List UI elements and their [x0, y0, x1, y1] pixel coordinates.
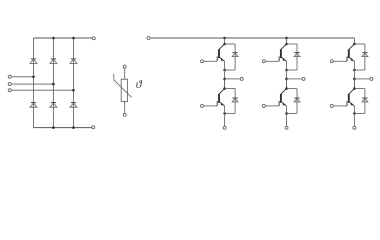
wire emitter leg 2 lower [286, 106, 288, 126]
terminal emitter leg 2 [285, 126, 288, 129]
wire rectifier leg 3 [73, 38, 75, 128]
wire diode branch bottom leg 3 upper [354, 69, 365, 71]
wire emitter leg 2 upper [286, 62, 288, 89]
wire AC input L2 [12, 83, 54, 85]
wire aux emitter leg 3 [354, 78, 369, 80]
wire collector drop leg 3 upper [353, 38, 355, 44]
wire thermistor bottom lead [124, 101, 126, 113]
node collector split leg 3 lower [353, 87, 356, 90]
wire gate lead leg 1 upper [204, 60, 217, 62]
node DC+ rail / leg 2 [285, 37, 288, 40]
wire diode branch bottom leg 3 lower [354, 112, 365, 114]
thermistor diagonal stroke [114, 74, 132, 98]
node emitter / diode leg 1 upper [223, 69, 226, 72]
wire rectifier leg 1 [33, 38, 35, 128]
wire diode branch top leg 1 lower [225, 88, 236, 90]
terminal aux emitter / phase leg 2 [302, 77, 305, 80]
node emitter / diode leg 3 upper [353, 69, 356, 72]
node emitter / diode leg 1 lower [223, 112, 226, 115]
wire gate lead leg 3 lower [334, 105, 347, 107]
wire rectifier leg 2 [52, 38, 54, 128]
terminal gate leg 1 upper [201, 60, 204, 63]
terminal emitter leg 1 [223, 126, 226, 129]
terminal gate leg 1 lower [201, 104, 204, 107]
diode D3 [50, 59, 57, 64]
node AC L3 / leg 3 [72, 89, 75, 92]
wire aux emitter leg 1 [225, 78, 240, 80]
IGBT leg 1 upper [217, 44, 224, 62]
wire diode branch top leg 2 upper [287, 43, 298, 45]
terminal emitter leg 3 [353, 126, 356, 129]
IGBT leg 2 lower [279, 89, 286, 107]
diode antiparallel leg 3 lower [362, 98, 368, 102]
wire emitter leg 3 upper [353, 62, 355, 89]
node top rail / leg 3 [72, 37, 75, 40]
wire aux emitter leg 2 [287, 78, 302, 80]
wire collector drop leg 1 lower [224, 79, 226, 89]
wire diode branch bottom leg 1 upper [225, 69, 236, 71]
diode antiparallel leg 3 upper [362, 53, 368, 57]
diode D4 [50, 103, 57, 108]
wire diode branch top leg 1 upper [225, 43, 236, 45]
terminal thermistor top [123, 65, 126, 68]
wire collector drop leg 1 upper [224, 38, 226, 44]
terminal AC input L2 [8, 83, 11, 86]
IGBT leg 3 lower [347, 89, 354, 107]
terminal gate leg 3 lower [330, 104, 333, 107]
terminal gate leg 3 upper [330, 60, 333, 63]
wire bottom DC- rail [34, 127, 92, 129]
diode antiparallel leg 2 upper [294, 53, 300, 57]
wire gate lead leg 2 upper [266, 60, 279, 62]
terminal thermistor bottom [123, 113, 126, 116]
terminal aux emitter / phase leg 1 [240, 77, 243, 80]
label theta [136, 77, 143, 91]
node bottom rail / leg 3 [72, 126, 75, 129]
node collector split leg 2 lower [285, 87, 288, 90]
wire diode branch top leg 3 lower [354, 88, 365, 90]
wire diode branch leg 1 lower [234, 89, 236, 114]
diode antiparallel leg 2 lower [294, 98, 300, 102]
terminal AC input L3 [8, 89, 11, 92]
node collector split leg 3 upper [353, 43, 356, 46]
wire diode branch leg 2 lower [296, 89, 298, 114]
node AC L2 / leg 2 [52, 83, 55, 86]
IGBT leg 2 upper [279, 44, 286, 62]
wire gate lead leg 3 upper [334, 60, 347, 62]
terminal aux emitter / phase leg 3 [370, 77, 373, 80]
wire thermistor top lead [124, 69, 126, 80]
node aux emitter leg 1 [223, 78, 226, 81]
wire emitter leg 1 lower [224, 106, 226, 126]
wire AC input L1 [12, 76, 34, 78]
wire diode branch bottom leg 2 lower [287, 112, 298, 114]
wire top DC+ rail [34, 37, 92, 39]
node DC+ rail / leg 1 [223, 37, 226, 40]
wire AC input L3 [12, 89, 74, 91]
wire diode branch leg 3 lower [364, 89, 366, 114]
terminal gate leg 2 upper [262, 60, 265, 63]
wire diode branch bottom leg 1 lower [225, 112, 236, 114]
node bottom rail / leg 2 [52, 126, 55, 129]
diode D2 [30, 103, 37, 108]
wire collector drop leg 2 lower [286, 79, 288, 89]
wire collector drop leg 3 lower [353, 79, 355, 89]
diode antiparallel leg 1 upper [232, 53, 238, 57]
wire gate lead leg 1 lower [204, 105, 217, 107]
terminal DC+ (rectifier) [92, 37, 95, 40]
node aux emitter leg 2 [285, 78, 288, 81]
node collector split leg 1 lower [223, 87, 226, 90]
diode D5 [70, 59, 77, 64]
wire diode branch leg 3 upper [364, 44, 366, 70]
wire diode branch top leg 2 lower [287, 88, 298, 90]
node collector split leg 2 upper [285, 43, 288, 46]
node AC L1 / leg 1 [32, 76, 35, 79]
IGBT leg 1 lower [217, 89, 224, 107]
wire collector drop leg 2 upper [286, 38, 288, 44]
node aux emitter leg 3 [353, 78, 356, 81]
node emitter / diode leg 3 lower [353, 112, 356, 115]
wire inverter DC+ rail [150, 37, 354, 39]
wire gate lead leg 2 lower [266, 105, 279, 107]
terminal AC input L1 [8, 75, 11, 78]
diode D1 [30, 59, 37, 64]
diode D6 [70, 103, 77, 108]
terminal DC- (rectifier) [92, 126, 95, 129]
wire diode branch bottom leg 2 upper [287, 69, 298, 71]
terminal inverter DC+ [147, 37, 150, 40]
wire diode branch top leg 3 upper [354, 43, 365, 45]
node emitter / diode leg 2 upper [285, 69, 288, 72]
wire emitter leg 3 lower [353, 106, 355, 126]
node top rail / leg 2 [52, 37, 55, 40]
wire diode branch leg 1 upper [234, 44, 236, 70]
diode antiparallel leg 1 lower [232, 98, 238, 102]
wire diode branch leg 2 upper [296, 44, 298, 70]
wire emitter leg 1 upper [224, 62, 226, 89]
svg-text:ϑ: ϑ [136, 77, 143, 91]
thermistor R-th body [121, 79, 127, 101]
IGBT leg 3 upper [347, 44, 354, 62]
node emitter / diode leg 2 lower [285, 112, 288, 115]
node collector split leg 1 upper [223, 43, 226, 46]
terminal gate leg 2 lower [262, 104, 265, 107]
